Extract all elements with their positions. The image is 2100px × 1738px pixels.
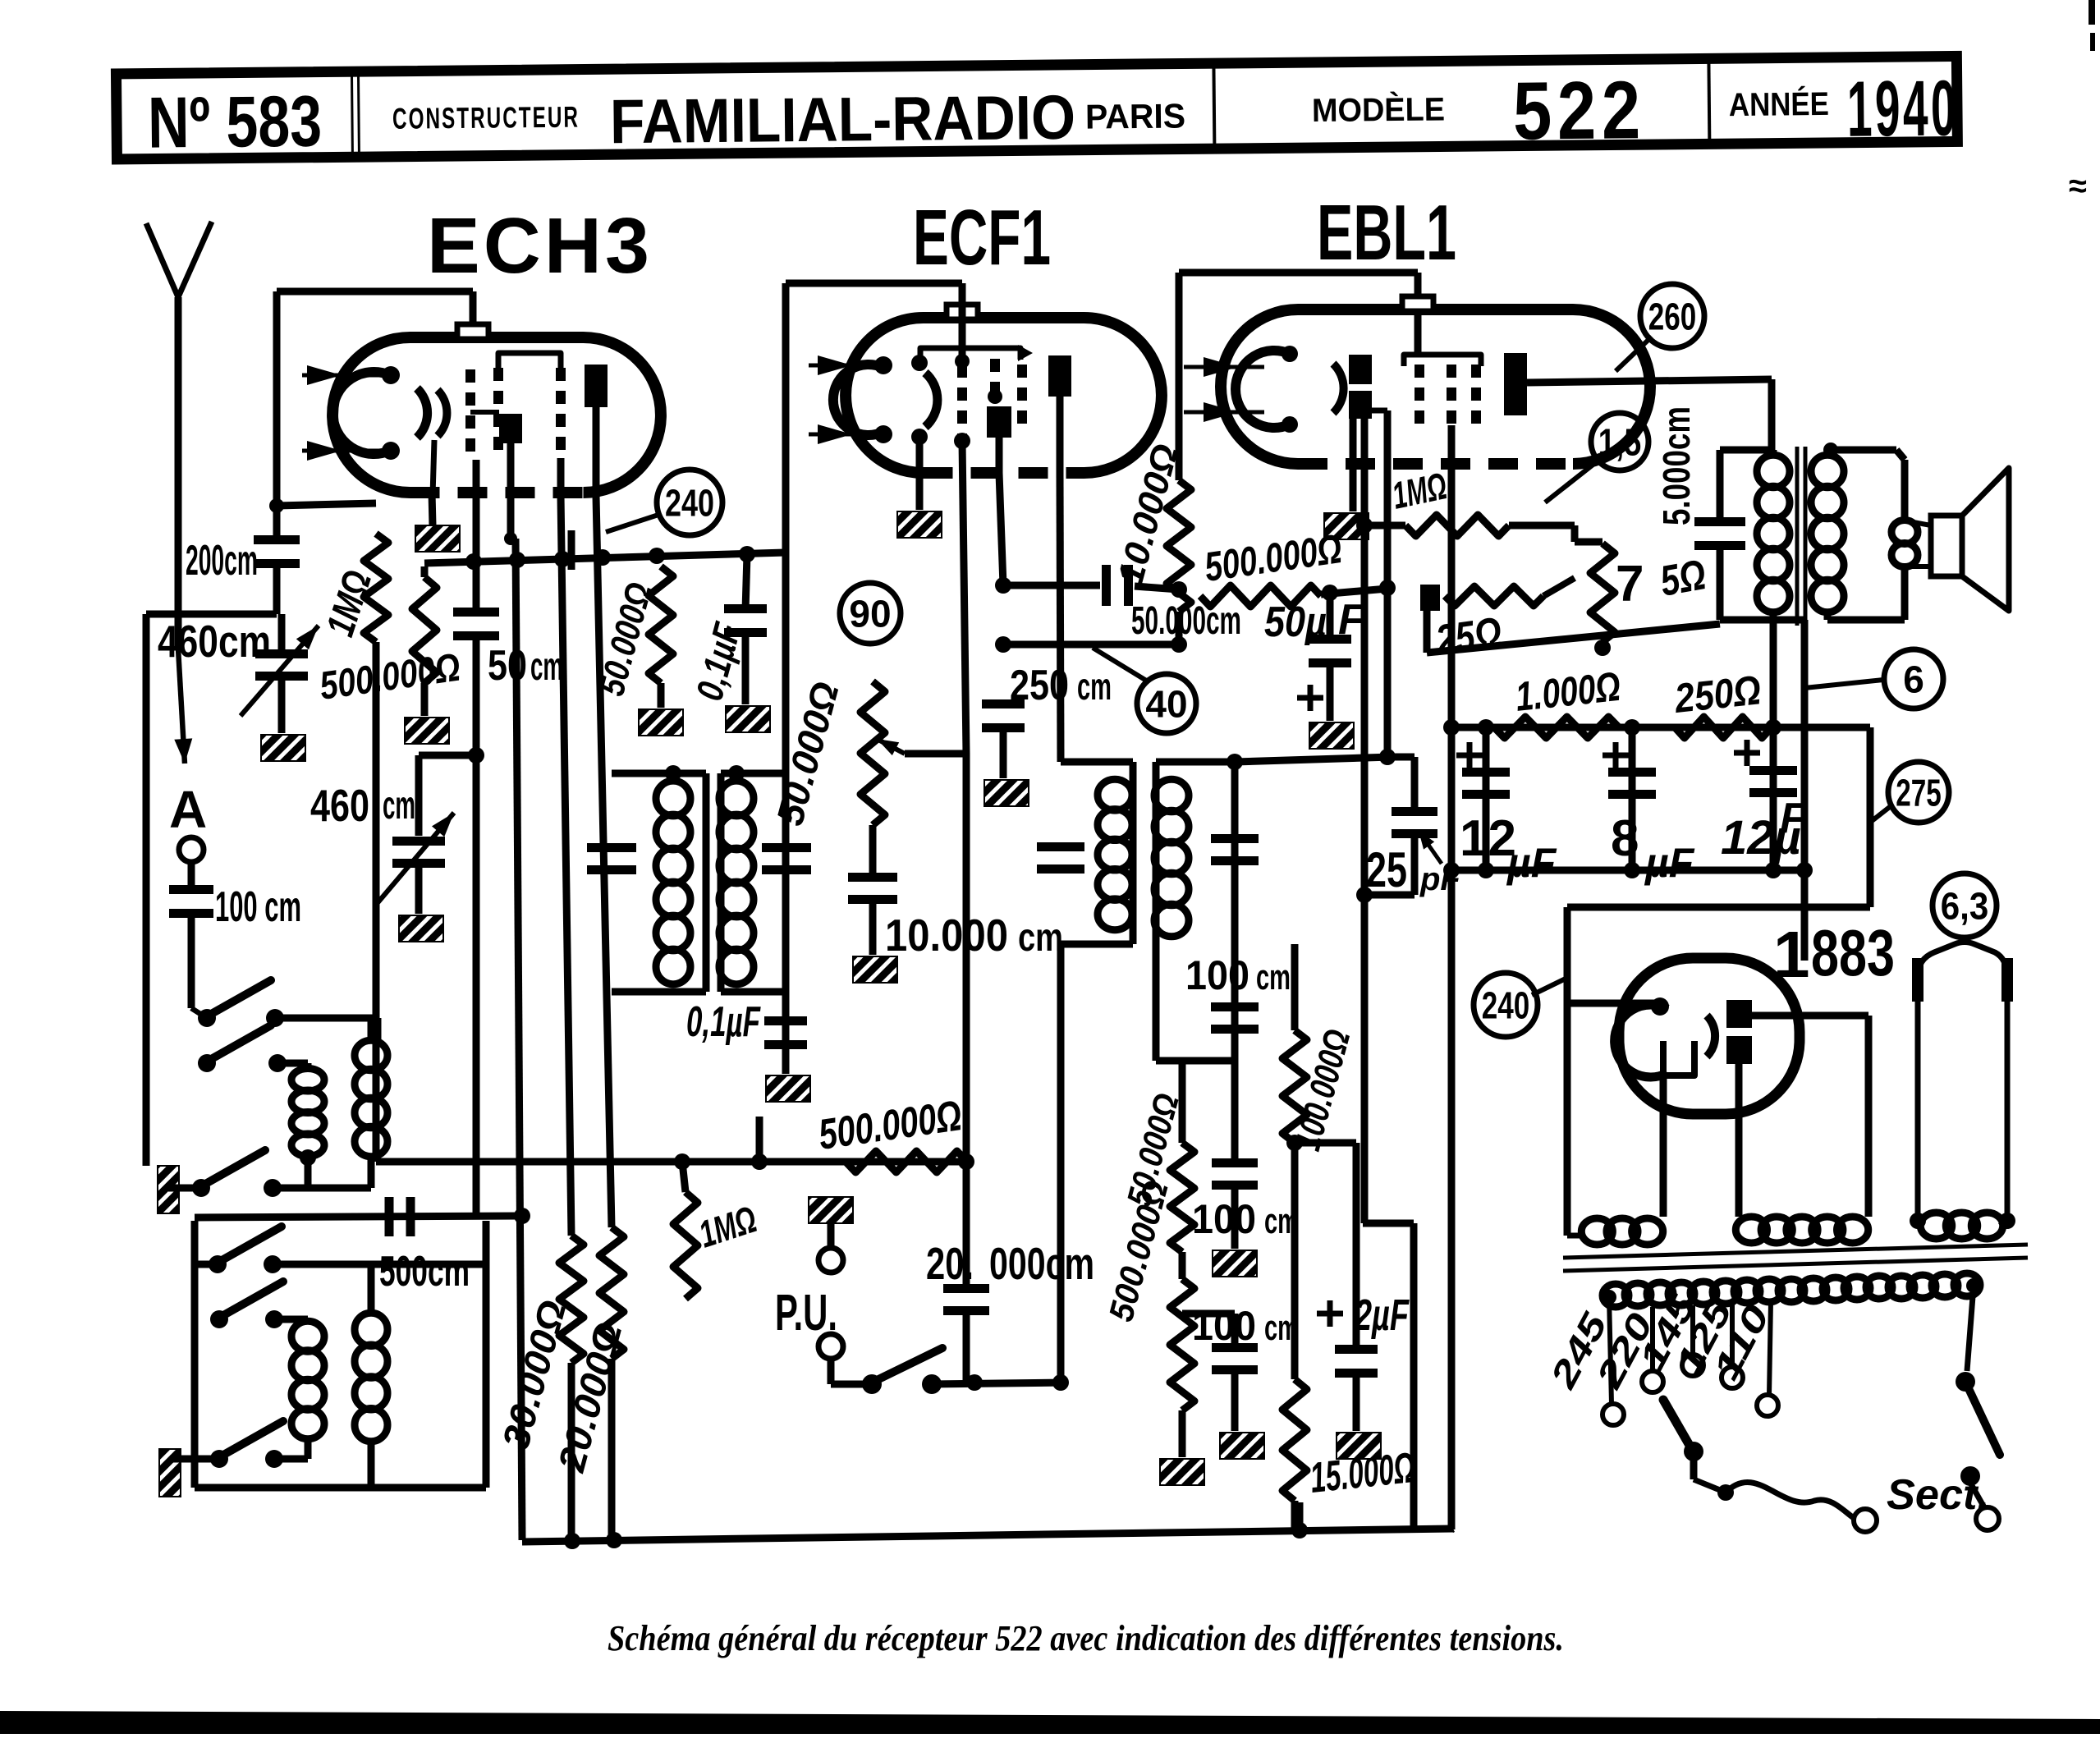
svg-text:20.: 20. [926,1238,974,1289]
svg-text:460: 460 [310,780,369,831]
svg-text:2µF: 2µF [1354,1291,1410,1340]
svg-text:cm: cm [530,645,563,689]
svg-text:µF: µF [1506,840,1557,886]
svg-text:Schéma général du récepteur: Schéma général du récepteur 522 avec ind… [608,1618,1564,1658]
svg-text:EBL1: EBL1 [1317,189,1456,277]
svg-text:40: 40 [1145,683,1187,726]
svg-text:100: 100 [1192,1303,1256,1349]
svg-text:100: 100 [1185,952,1249,998]
svg-text:100: 100 [1192,1196,1256,1242]
svg-text:000cm: 000cm [989,1238,1094,1289]
svg-text:460cm: 460cm [158,616,271,667]
svg-text:25Ω: 25Ω [1433,608,1505,665]
svg-text:260: 260 [1648,296,1697,338]
svg-text:FAMILIAL-RADIO: FAMILIAL-RADIO [610,83,1076,157]
svg-text:100 cm: 100 cm [215,883,301,931]
svg-text:200cm: 200cm [186,537,258,585]
svg-text:6: 6 [1903,658,1924,701]
svg-text:275: 275 [1896,772,1942,814]
svg-text:240: 240 [1482,984,1530,1027]
svg-text:A: A [169,780,207,839]
svg-text:250Ω: 250Ω [1671,667,1763,722]
svg-text:8: 8 [1611,810,1639,867]
svg-text:cm: cm [1256,957,1291,997]
svg-text:50: 50 [488,642,527,690]
svg-text:cm: cm [1264,1201,1299,1241]
svg-text:6,3: 6,3 [1941,885,1989,928]
svg-text:5.000cm: 5.000cm [1655,406,1698,525]
svg-text:1,5: 1,5 [1598,421,1642,464]
svg-text:ECF1: ECF1 [913,194,1051,282]
svg-text:10.000: 10.000 [885,910,1008,961]
svg-text:µF: µF [1644,840,1695,886]
svg-text:≈: ≈ [2069,168,2087,204]
svg-text:cm: cm [1264,1308,1299,1348]
svg-text:CONSTRUCTEUR: CONSTRUCTEUR [392,100,580,135]
svg-text:PARIS: PARIS [1085,96,1185,135]
svg-text:cm: cm [1077,665,1112,708]
svg-text:522: 522 [1512,64,1646,158]
svg-text:cm: cm [1018,916,1063,960]
svg-text:ANNÉE: ANNÉE [1729,85,1829,123]
svg-text:883: 883 [1811,916,1895,989]
svg-text:50.000cm: 50.000cm [1131,599,1241,643]
svg-text:25: 25 [1366,842,1407,897]
svg-text:1940: 1940 [1846,64,1959,153]
svg-text:500cm: 500cm [379,1248,470,1295]
svg-text:5Ω: 5Ω [1657,551,1709,606]
svg-text:MODÈLE: MODÈLE [1312,90,1445,129]
svg-text:7: 7 [1616,556,1644,612]
svg-text:Nº 583: Nº 583 [148,80,323,163]
svg-text:240: 240 [665,482,714,525]
svg-text:ECH3: ECH3 [427,202,653,290]
svg-text:90: 90 [849,593,891,635]
svg-text:cm: cm [383,784,415,828]
svg-text:0,1µF: 0,1µF [686,998,761,1046]
